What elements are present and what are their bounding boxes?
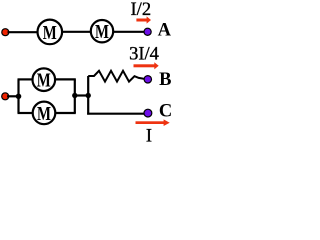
motor M4 bbox=[33, 102, 56, 125]
motor M3 bbox=[33, 68, 56, 91]
svg-text:I: I bbox=[146, 126, 152, 143]
wire bbox=[7, 95, 19, 97]
junction left bbox=[16, 94, 22, 100]
current arrow I bbox=[136, 119, 170, 126]
motor M2 bbox=[91, 20, 113, 43]
terminal (red) bottom-left bbox=[1, 92, 9, 100]
wire riser to resistor / dropper to C bbox=[87, 76, 89, 115]
junction mid-right bbox=[86, 93, 91, 98]
svg-text:M: M bbox=[43, 22, 57, 44]
svg-text:A: A bbox=[158, 20, 172, 40]
wire left bus vertical bbox=[17, 79, 19, 113]
node A dot bbox=[143, 28, 151, 36]
wire right bus vertical bbox=[74, 79, 76, 113]
wire top branch right stub bbox=[55, 78, 76, 80]
node B dot bbox=[144, 75, 153, 84]
wire bbox=[63, 31, 91, 33]
wire bottom branch right stub bbox=[55, 112, 76, 114]
wire bottom to C bbox=[87, 113, 145, 115]
svg-text:3I/4: 3I/4 bbox=[129, 45, 159, 65]
current arrow 3I/4 bbox=[134, 62, 159, 69]
svg-text:M: M bbox=[37, 103, 51, 125]
resistor R bbox=[88, 71, 144, 82]
motor M1 bbox=[38, 20, 63, 45]
wire bbox=[114, 31, 146, 33]
svg-text:C: C bbox=[159, 102, 172, 122]
wire bottom branch stub bbox=[18, 112, 34, 114]
svg-text:M: M bbox=[95, 21, 109, 43]
svg-text:I/2: I/2 bbox=[131, 0, 152, 20]
wire bbox=[8, 31, 39, 33]
svg-text:M: M bbox=[37, 70, 51, 92]
node C dot bbox=[143, 109, 152, 118]
wire top branch stub bbox=[18, 78, 34, 80]
wire middle link bbox=[75, 94, 88, 96]
current arrow I/2 bbox=[136, 16, 151, 23]
terminal (red) top-left bbox=[1, 28, 9, 36]
junction mid-left bbox=[72, 93, 77, 98]
svg-text:B: B bbox=[159, 70, 171, 90]
